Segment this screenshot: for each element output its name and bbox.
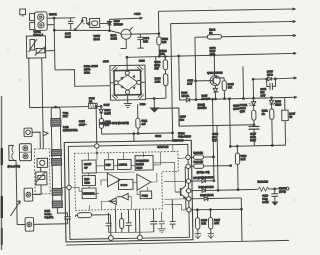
junction dots rail5 (212, 97, 273, 100)
svg-text:C607: C607 (104, 103, 111, 107)
wire left vertical to bottom connector (9, 160, 17, 224)
block PWM (140, 191, 152, 199)
svg-text:C610 0.47 400V (AC125V): C610 0.47 400V (AC125V) (100, 121, 129, 126)
wire drop from rail4 to D606 (178, 55, 181, 100)
capacitor C617 (248, 126, 259, 145)
wire rail3 with resistor R614 (195, 33, 297, 99)
wire TH601 right lead down to flag (42, 58, 44, 149)
svg-text:THERMAL: THERMAL (83, 191, 96, 195)
op-amp A (107, 173, 120, 187)
wire primary top run (30, 106, 101, 107)
pin 2 bottom circle (137, 235, 142, 240)
label PC601 (240, 103, 248, 114)
svg-text:10u: 10u (180, 118, 185, 122)
connector P601 (24, 188, 33, 201)
svg-text:PRT: PRT (63, 114, 68, 118)
op-amp B error amp (137, 174, 151, 190)
svg-text:1.2k: 1.2k (201, 221, 206, 225)
resistor R604 (163, 56, 168, 70)
IC internal wires (61, 145, 174, 211)
svg-text:SQ-10A: SQ-10A (45, 215, 54, 219)
svg-text:QN3: QN3 (240, 109, 246, 113)
label C604 (143, 36, 150, 43)
svg-text:RU-2A: RU-2A (181, 94, 189, 98)
svg-text:PWM: PWM (142, 194, 148, 198)
block REF REG (82, 175, 95, 185)
wire Q602 top to R618 (217, 76, 225, 78)
wire rail6 output (218, 187, 289, 191)
label R603 (159, 49, 167, 56)
wire AC neutral from CN601 circle2 (47, 24, 54, 26)
label L602 (63, 125, 78, 132)
wire Q602 base to rail3 drop (195, 80, 210, 82)
label D608 (275, 99, 282, 106)
svg-text:4n7: 4n7 (141, 122, 146, 126)
svg-text:(DG..COIL): (DG..COIL) (8, 164, 21, 168)
svg-text:2.2k: 2.2k (143, 39, 148, 43)
wire pin 210 run (191, 209, 241, 210)
label C612 (155, 133, 184, 142)
junction at IC startup tap (95, 106, 97, 108)
label D602 (104, 108, 111, 115)
fuse F601 (90, 18, 110, 27)
wire bridge feed (55, 69, 110, 87)
ground chassis triangle (150, 98, 158, 112)
wire vertical AC neutral down to bridge feed (53, 18, 56, 70)
block LATCH (118, 159, 132, 169)
label IC601 (178, 131, 191, 138)
resistor R609 at pin167 (190, 163, 231, 168)
svg-text:DRIVE: DRIVE (136, 162, 144, 166)
label L603 (110, 33, 117, 40)
wire TH601 left lead down to primary (28, 58, 31, 107)
svg-text:0.047: 0.047 (65, 35, 72, 39)
wire AC hot down to fuse (82, 18, 86, 24)
IC601 package box (68, 144, 189, 239)
IC601 outer shield box (64, 140, 193, 242)
label R627 (289, 111, 296, 118)
wire x244 drop D607 feed (242, 66, 245, 98)
svg-text:1SS133: 1SS133 (198, 106, 207, 110)
svg-text:+ B.R: + B.R (134, 12, 140, 16)
resistor R607 (135, 104, 140, 134)
ground below bridge (124, 100, 132, 108)
junction lower AC (53, 29, 55, 31)
label R614 (209, 27, 216, 34)
svg-text:(7.5Vp- 0.5): (7.5Vp- 0.5) (197, 170, 210, 174)
svg-text:560k: 560k (155, 80, 161, 84)
connector box top left (24, 128, 40, 149)
label C617 (250, 132, 257, 143)
wire bridge minus to ground node (145, 97, 166, 100)
resistor R622 zigzag (258, 187, 269, 191)
svg-text:82k: 82k (162, 40, 167, 44)
flag marker (43, 131, 48, 136)
svg-text:1A: 1A (89, 99, 92, 103)
stub below rail4 (155, 57, 157, 68)
pin 4 top circle (95, 144, 99, 148)
zener D602 (99, 105, 103, 118)
label R602 (162, 37, 169, 44)
zener D609 (213, 86, 218, 100)
label T601 (63, 111, 69, 118)
label R619 (240, 154, 247, 161)
block THERMAL (82, 188, 96, 199)
svg-text:REF: REF (84, 177, 89, 181)
svg-text:R622 120: R622 120 (257, 179, 268, 183)
label C619 (262, 193, 269, 204)
svg-text:1.6V: 1.6V (187, 81, 192, 85)
label CN601 (49, 12, 57, 16)
label D606 (181, 91, 189, 98)
svg-text:CP: CP (84, 166, 88, 170)
label R618 (228, 82, 235, 89)
thermistor TH601 line filter box (26, 36, 45, 58)
label R604 (154, 60, 161, 71)
label R605 (155, 76, 162, 83)
thermistor TH602 posistor (37, 158, 48, 167)
label R617 (214, 218, 221, 225)
connector CN601 AC inlet (29, 12, 47, 31)
svg-text:C608: C608 (139, 59, 146, 63)
connector fastener top left (20, 9, 26, 17)
wire rail5 (196, 96, 297, 100)
svg-text:ZNR220: ZNR220 (114, 22, 124, 26)
svg-text:(1W): (1W) (210, 52, 216, 56)
svg-text:REG: REG (84, 181, 89, 185)
scan edge artifact (1, 96, 3, 250)
capacitor C615 under D607 (267, 79, 276, 90)
resistor R616 (194, 209, 201, 239)
resistor R621 (270, 109, 275, 146)
svg-text:SZ-20LA: SZ-20LA (33, 33, 43, 37)
label F602 (89, 96, 95, 103)
label bridge (84, 64, 98, 75)
svg-text:1.6V: 1.6V (260, 93, 265, 97)
capacitor C620 secondary (57, 207, 71, 224)
svg-text:4.7k: 4.7k (214, 221, 219, 225)
svg-text:3.5W 0.15: 3.5W 0.15 (157, 145, 169, 149)
wire x230 riser (229, 98, 232, 147)
wire AC hot from CN601 to switch (47, 17, 75, 19)
label R613 (210, 46, 217, 57)
svg-text:LATCH: LATCH (119, 162, 127, 166)
IC601 internal dashed box (74, 152, 178, 211)
wire feedback run y133 (102, 133, 173, 134)
resistor R618 (222, 78, 227, 100)
junction at R602 column (158, 33, 160, 35)
pin left circle (67, 185, 71, 189)
wire rail7 bottom (66, 240, 289, 245)
wire from ground node right and down (158, 107, 254, 127)
label L601 (44, 209, 53, 220)
resistor R605 (163, 70, 168, 99)
capacitor C604 (137, 34, 144, 48)
wire down to IC top pin (95, 106, 98, 143)
svg-text:(7.6V): (7.6V) (279, 189, 286, 193)
label C612 (187, 78, 194, 85)
switch S601 (74, 18, 86, 31)
wire P601 to degauss box (33, 193, 41, 195)
svg-text:C609: C609 (140, 102, 147, 106)
svg-text:110k: 110k (159, 52, 165, 56)
svg-text:Q602 2SB564: Q602 2SB564 (207, 71, 223, 75)
wire lower AC run to switch bottom contact (54, 29, 121, 35)
svg-text:3.5W 0.15: 3.5W 0.15 (172, 138, 184, 142)
svg-text:OVP: OVP (105, 163, 111, 167)
capacitor C606 bridge corner (111, 66, 117, 72)
zener D608 (269, 98, 274, 109)
svg-text:C612: C612 (155, 134, 162, 138)
label D607 (267, 69, 274, 76)
label D609 (201, 93, 210, 100)
varistor ZNR D601 across AC (107, 19, 111, 31)
svg-text:CN601: CN601 (49, 12, 57, 16)
svg-text:250V~: 250V~ (79, 123, 87, 127)
junction dot primary top (55, 106, 57, 108)
label ZNR (114, 19, 124, 26)
pin 1 bottom circle (108, 236, 113, 241)
block OSC (118, 179, 133, 189)
svg-text:D613 1SS133: D613 1SS133 (199, 185, 215, 189)
wire D607 feed vertical (252, 78, 254, 98)
svg-text:ST-BY: ST-BY (84, 162, 92, 166)
diode D607 (253, 77, 297, 82)
wire rail1 B+ top (158, 8, 295, 13)
chassis arrow diagonal (10, 201, 20, 216)
wire x240 riser to rail7 (240, 198, 243, 242)
svg-text:C606: C606 (103, 59, 110, 63)
wire x217 riser (217, 125, 218, 190)
svg-text:1.4kV: 1.4kV (262, 200, 269, 204)
diode D613 (191, 188, 219, 192)
wire thermistor tap from AC neutral (45, 50, 55, 52)
label R606 (105, 119, 112, 126)
label C605 (65, 31, 72, 38)
IC bottom caps (105, 200, 176, 236)
wire P602 to cap C620 (17, 223, 67, 226)
svg-text:CIRC: CIRC (136, 166, 142, 170)
svg-text:R05Z: R05Z (105, 111, 112, 115)
label R616 (201, 218, 208, 225)
transistor Q602 (210, 75, 220, 85)
label C613 (79, 119, 87, 127)
output transistor Q in IC (153, 162, 189, 210)
label C613 (212, 132, 219, 143)
diode D606 (179, 98, 196, 102)
svg-text:8.2k: 8.2k (241, 157, 246, 161)
svg-text:C4SZ: C4SZ (110, 36, 117, 40)
junction on AC hot (53, 17, 55, 19)
capacitor C608 bridge corner (137, 65, 143, 71)
wire rail2 (171, 20, 298, 141)
photocoupler PC601 LED branch (248, 98, 256, 126)
comparator small left arrow 1 (108, 198, 117, 205)
svg-text:160V: 160V (250, 138, 256, 142)
capacitor C619 (271, 188, 278, 206)
junction ground node (153, 98, 155, 100)
bridge rectifier D601-D604 (110, 57, 146, 100)
svg-text:STR-S5706: STR-S5706 (178, 134, 191, 138)
svg-text:LINE FILTER: LINE FILTER (63, 128, 78, 132)
transformer T601 winding column (51, 108, 63, 208)
svg-text:6A01: 6A01 (84, 70, 91, 74)
connector blade marker (87, 22, 89, 25)
connector P602 bottom (25, 218, 34, 232)
svg-text:R608 1k: R608 1k (193, 151, 203, 155)
resistor R606 (99, 118, 103, 134)
svg-text:HZ12: HZ12 (275, 102, 282, 106)
comparator small left arrow 2 (117, 193, 128, 200)
block START UP (82, 160, 96, 173)
block OVP (105, 160, 114, 170)
label F601 (93, 34, 100, 41)
svg-text:2kV: 2kV (154, 66, 159, 70)
wire x213 riser (213, 99, 214, 180)
diode D612 (191, 179, 215, 183)
svg-text:25R0: 25R0 (233, 107, 240, 111)
svg-text:FORWARD: FORWARD (136, 159, 149, 163)
varistor in degauss box (36, 167, 47, 194)
svg-text:R609 1k: R609 1k (194, 160, 204, 164)
svg-text:O S C: O S C (120, 183, 127, 187)
label C610 (180, 114, 187, 121)
resistor R627 (281, 97, 288, 145)
label TH601 (33, 29, 43, 36)
svg-text:EU-2: EU-2 (267, 73, 273, 77)
wire lower AC to R602 column (131, 33, 159, 35)
svg-text:D610 HZ-T1: D610 HZ-T1 (200, 193, 214, 197)
capacitor C607 bridge corner (112, 93, 118, 99)
label C616 (233, 103, 240, 110)
svg-text:56k: 56k (228, 85, 233, 89)
junction y133 (172, 132, 174, 134)
label TH right of C619 (279, 186, 287, 193)
svg-text:1SS133: 1SS133 (201, 97, 210, 101)
degauss dashed box (34, 149, 50, 194)
svg-text:22-06: 22-06 (93, 37, 100, 41)
wire y148 run (230, 145, 285, 146)
connector CN602 degauss coil (9, 144, 32, 161)
zener D610 (191, 196, 241, 201)
wire Q602 collector from rail4 (213, 54, 215, 76)
wire feedback drop to IC top (133, 133, 135, 142)
resistor R602 startup on rail1 drop (156, 11, 161, 57)
bead L603 on lower AC wire (120, 27, 133, 48)
block FORWARD DRIVE (135, 155, 153, 170)
right pins of IC601 (186, 155, 191, 212)
capacitor C609 bridge corner (138, 93, 144, 99)
label C615 (260, 87, 267, 98)
wire x178 riser (178, 108, 180, 126)
capacitor C605 across switch (68, 18, 74, 30)
wire rail4 B+ from bridge (126, 52, 296, 58)
resistor R619 (235, 145, 240, 190)
label R621 (262, 108, 269, 115)
wire hot out with arrow +B (109, 12, 142, 20)
resistor R608 at pin158 (190, 155, 214, 160)
label D611 (198, 103, 207, 110)
resistor R617 (207, 209, 214, 239)
fuse F602 (89, 103, 98, 108)
svg-text:D612 1SS133: D612 1SS133 (198, 175, 214, 179)
wires pins to internals (164, 158, 187, 210)
label R607 (141, 119, 147, 126)
IC bottom resistor (75, 212, 110, 236)
